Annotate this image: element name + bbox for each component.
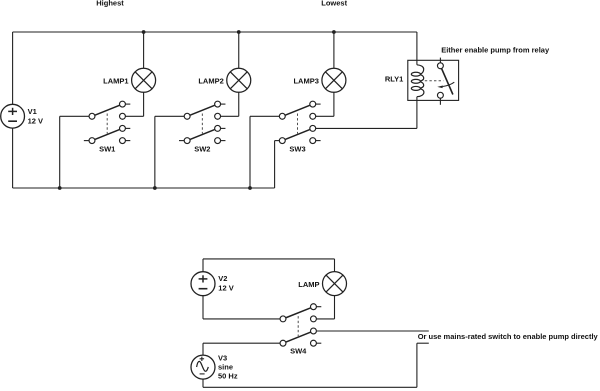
label LAMP2 bbox=[198, 77, 223, 86]
node junction top bus LAMP3 bbox=[332, 30, 336, 34]
text note relay bbox=[441, 46, 550, 55]
wire bottom bus bbox=[13, 187, 275, 189]
label V3 sine 50 Hz bbox=[218, 354, 238, 381]
svg-text:V1: V1 bbox=[28, 107, 37, 116]
relay RLY1 coil bbox=[411, 65, 424, 97]
text label Highest bbox=[96, 0, 124, 8]
node junction top bus LAMP1 bbox=[142, 30, 146, 34]
wire SW2 lower pole upper throw stub bbox=[221, 127, 226, 129]
wire SW4 upper pole NC stub bbox=[316, 306, 321, 308]
wire SW3 lower pole lower throw stub bbox=[316, 140, 321, 142]
wire bottom bus to SW3 common bbox=[250, 116, 279, 188]
wire SW2 upper pole NC stub bbox=[221, 103, 226, 105]
wire V2 top to LAMP bbox=[203, 259, 335, 272]
text note mains switch bbox=[418, 332, 599, 341]
svg-text:50 Hz: 50 Hz bbox=[218, 371, 238, 380]
label LAMP bbox=[298, 280, 319, 289]
switch SW2 upper pole bbox=[184, 101, 220, 119]
label SW2 bbox=[194, 144, 210, 153]
lamp LAMP bbox=[323, 272, 347, 296]
wire SW1 lower pole upper throw stub bbox=[125, 127, 130, 129]
mechanical link SW1 bbox=[106, 114, 108, 134]
label RLY1 bbox=[385, 74, 403, 83]
wire top bus bbox=[13, 31, 417, 33]
wire SW4 lower pole lower throw stub bbox=[316, 342, 321, 344]
wire V1 top bbox=[12, 32, 14, 104]
svg-text:12 V: 12 V bbox=[28, 116, 43, 125]
wire V1 bottom bbox=[12, 128, 14, 188]
svg-text:SW1: SW1 bbox=[99, 144, 115, 153]
wire bottom bus end to SW3 lower common bbox=[275, 141, 280, 188]
switch SW1 lower pole bbox=[89, 125, 125, 143]
mechanical link SW2 bbox=[201, 114, 203, 134]
label SW3 bbox=[289, 144, 305, 153]
label LAMP1 bbox=[103, 77, 128, 86]
voltage source V2 bbox=[191, 272, 215, 296]
switch SW3 lower pole bbox=[279, 125, 315, 143]
label V1 12 V bbox=[28, 107, 43, 125]
wire LAMP2 bottom to SW2 bbox=[221, 92, 239, 116]
wire SW2 lower pole lower throw stub bbox=[221, 140, 226, 142]
wire LAMP1 top bbox=[143, 32, 145, 68]
node junction bottom bus SW1 bbox=[58, 186, 62, 190]
wire SW2 lower pole common stub bbox=[179, 140, 184, 142]
svg-text:sine: sine bbox=[218, 363, 233, 372]
svg-text:SW2: SW2 bbox=[194, 144, 210, 153]
relay contact terminal bottom bbox=[437, 92, 443, 104]
lamp LAMP1 bbox=[132, 68, 156, 92]
svg-text:SW3: SW3 bbox=[289, 144, 305, 153]
switch SW2 lower pole bbox=[184, 125, 220, 143]
wire LAMP3 bottom to SW3 bbox=[316, 92, 334, 116]
wire LAMP1 bottom to SW1 bbox=[125, 92, 143, 116]
svg-text:V2: V2 bbox=[218, 274, 227, 283]
node junction bottom bus SW3 bbox=[248, 186, 252, 190]
wire LAMP2 top bbox=[238, 32, 240, 68]
svg-text:SW4: SW4 bbox=[290, 346, 307, 355]
lamp LAMP2 bbox=[227, 68, 251, 92]
wire bottom bus to SW1 common bbox=[60, 116, 89, 188]
relay contact arm bbox=[442, 69, 453, 95]
label V2 12 V bbox=[218, 274, 233, 292]
wire top bus to relay coil bbox=[416, 32, 418, 65]
wire SW1 lower pole lower throw stub bbox=[125, 140, 130, 142]
switch SW4 upper pole bbox=[280, 304, 316, 322]
voltage source V3 AC bbox=[191, 355, 215, 379]
svg-text:Lowest: Lowest bbox=[321, 0, 347, 8]
wire V3 top to SW4 lower common bbox=[203, 343, 280, 355]
wire SW1 upper pole NC stub bbox=[125, 103, 130, 105]
relay RLY1 box bbox=[408, 60, 459, 100]
wire bottom bus to SW2 common bbox=[155, 116, 184, 188]
lamp LAMP3 bbox=[322, 68, 346, 92]
label LAMP3 bbox=[293, 77, 318, 86]
label SW4 bbox=[290, 346, 307, 355]
switch SW4 lower pole bbox=[280, 328, 316, 346]
wire V3 bottom return bbox=[203, 343, 429, 387]
relay actuation arrow bbox=[437, 82, 454, 88]
wire LAMP bottom to SW4 bbox=[316, 296, 334, 319]
switch SW3 upper pole bbox=[279, 101, 315, 119]
wire V2 bottom to SW4 common bbox=[203, 296, 280, 319]
svg-text:LAMP: LAMP bbox=[298, 280, 319, 289]
svg-text:V3: V3 bbox=[218, 354, 227, 363]
switch SW1 upper pole bbox=[89, 101, 125, 119]
svg-text:RLY1: RLY1 bbox=[385, 74, 403, 83]
mechanical link SW4 bbox=[297, 316, 299, 336]
wire SW3 lower pole upper throw to relay coil bbox=[316, 97, 417, 129]
wire SW1 lower pole common stub bbox=[84, 140, 89, 142]
text label Lowest bbox=[321, 0, 347, 8]
wire SW3 upper pole NC stub bbox=[316, 103, 321, 105]
relay actuation dashed link bbox=[425, 80, 444, 82]
svg-text:LAMP3: LAMP3 bbox=[293, 77, 318, 86]
relay contact terminal top bbox=[437, 58, 443, 69]
svg-text:LAMP2: LAMP2 bbox=[198, 77, 223, 86]
svg-text:Or use mains-rated switch to e: Or use mains-rated switch to enable pump… bbox=[418, 332, 599, 341]
wire SW4 lower throw to pump stub bbox=[316, 330, 428, 332]
svg-text:LAMP1: LAMP1 bbox=[103, 77, 128, 86]
svg-text:Highest: Highest bbox=[96, 0, 124, 8]
wire LAMP3 top bbox=[333, 32, 335, 68]
svg-text:12 V: 12 V bbox=[218, 284, 233, 293]
mechanical link SW3 bbox=[297, 114, 299, 134]
node junction top bus LAMP2 bbox=[237, 30, 241, 34]
voltage source V1 bbox=[1, 104, 25, 128]
svg-text:Either enable pump from relay: Either enable pump from relay bbox=[441, 46, 550, 55]
node junction bottom bus SW2 bbox=[153, 186, 157, 190]
label SW1 bbox=[99, 144, 115, 153]
